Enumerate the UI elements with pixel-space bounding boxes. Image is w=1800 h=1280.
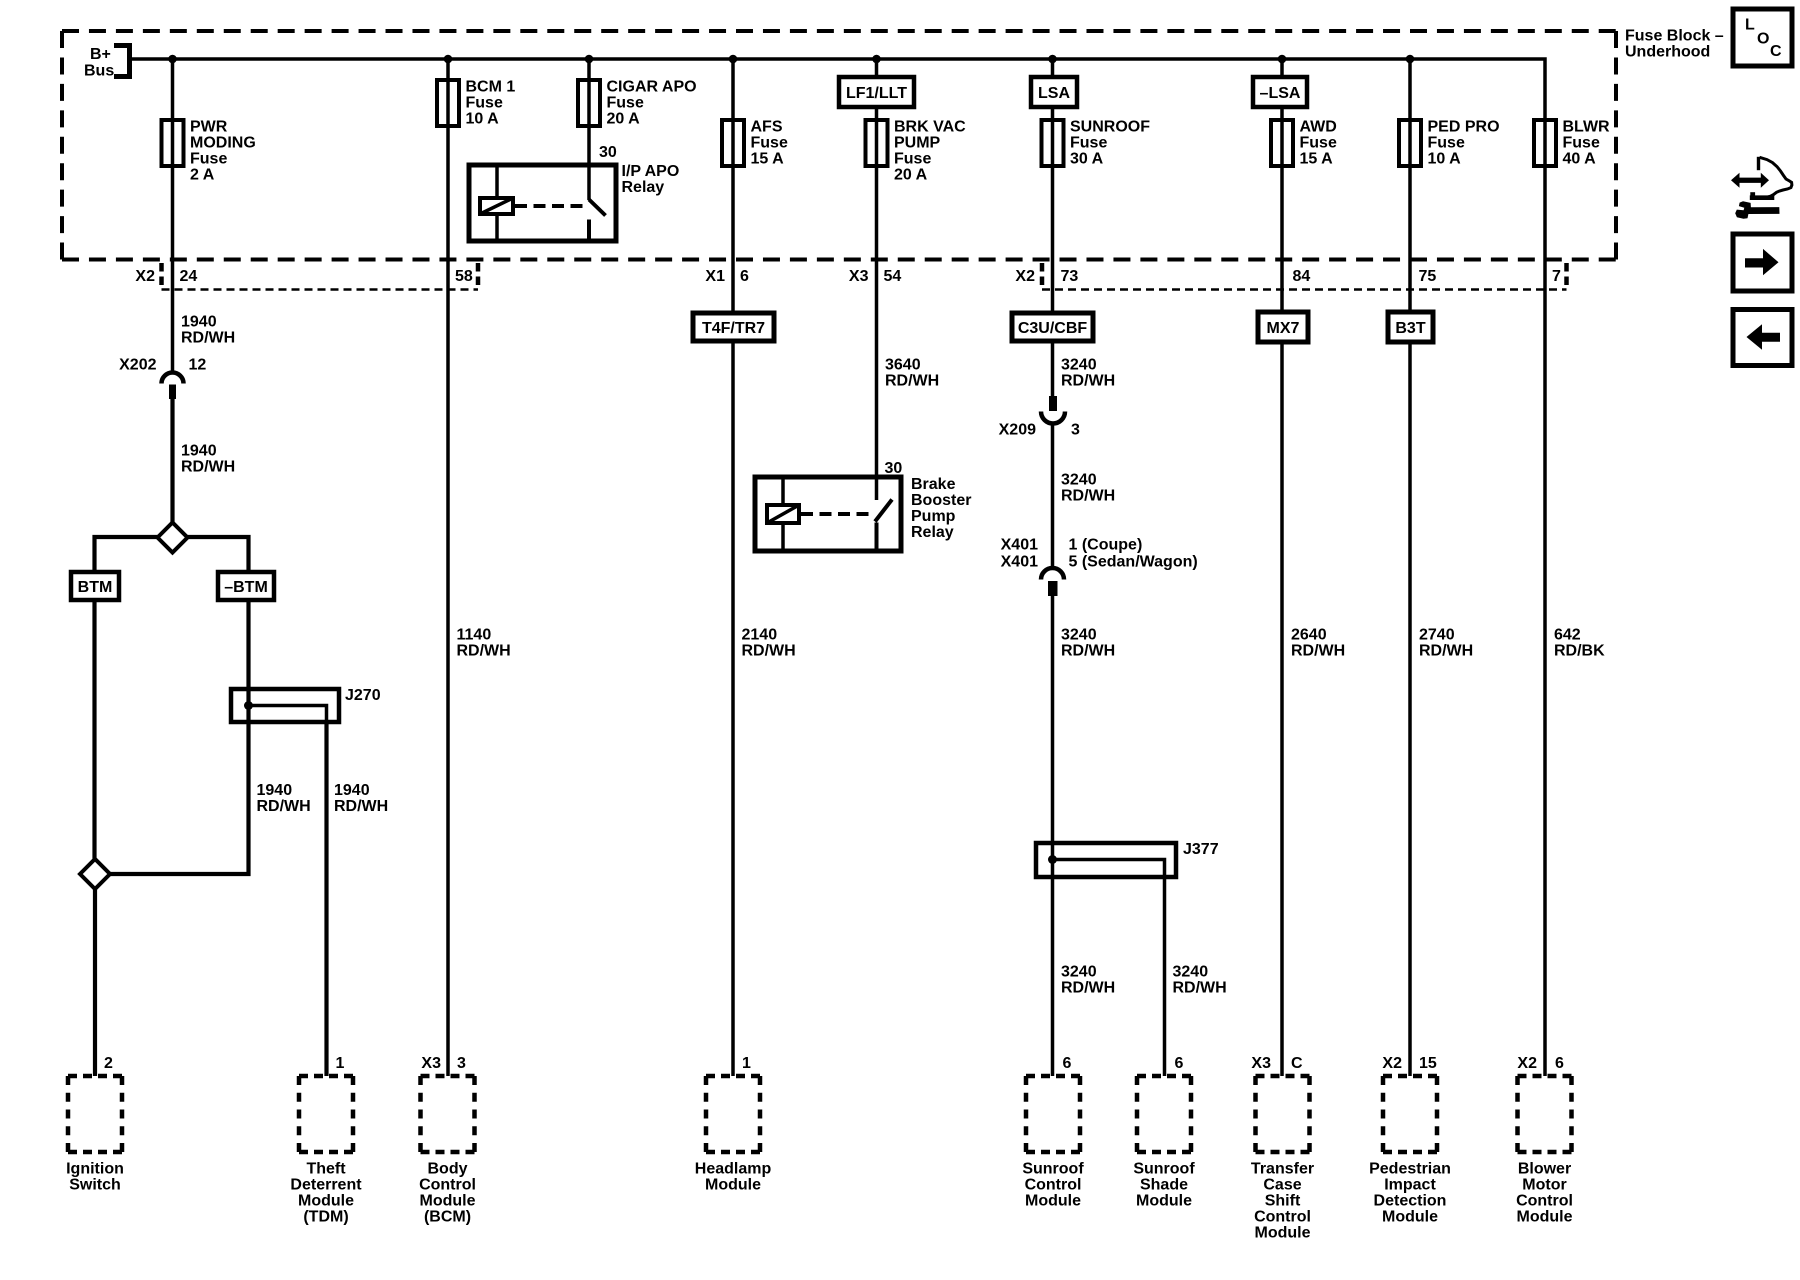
pin 1 TDM [336,1055,345,1072]
svg-text:X3: X3 [421,1055,441,1072]
svg-text:B+: B+ [90,46,111,63]
svg-text:58: 58 [455,268,473,285]
label box -BTM [218,572,274,600]
wire: SUNROOF fuse to X209 (3240 RD/WH) [1051,59,1055,396]
svg-text:75: 75 [1419,268,1437,285]
node: bus junction 3 [585,55,594,64]
svg-text:Fuse: Fuse [1070,135,1107,152]
svg-text:RD/WH: RD/WH [1061,980,1115,997]
svg-text:Control: Control [1025,1177,1082,1194]
svg-text:5 (Sedan/Wagon): 5 (Sedan/Wagon) [1069,554,1198,571]
node: bus junction 7 [1278,55,1287,64]
svg-text:3240: 3240 [1173,964,1209,981]
svg-text:3240: 3240 [1061,357,1097,374]
wire: splice to ignition switch [93,889,97,1076]
svg-text:10 A: 10 A [1428,151,1462,168]
svg-text:X401: X401 [1001,537,1038,554]
fuse BLWR 40A [1534,119,1610,168]
svg-text:J377: J377 [1183,841,1219,858]
splice diamond (to ignition switch) [80,859,110,889]
svg-text:642: 642 [1554,627,1581,644]
svg-text:BRK VAC: BRK VAC [894,119,966,136]
svg-text:RD/WH: RD/WH [1061,488,1115,505]
svg-text:(BCM): (BCM) [424,1209,471,1226]
svg-text:Fuse Block –: Fuse Block – [1625,28,1724,45]
wire label 3240 RD/WH (above X209) [1061,357,1115,390]
svg-text:AFS: AFS [751,119,783,136]
svg-text:Fuse: Fuse [751,135,788,152]
wire label 3640 RD/WH [885,357,939,390]
svg-text:Detection: Detection [1374,1193,1447,1210]
svg-text:LF1/LLT: LF1/LLT [846,85,907,102]
pin 6 sunroof control [1063,1055,1072,1072]
relay Brake Booster Pump (pin 30) [755,460,971,551]
svg-text:3640: 3640 [885,357,921,374]
svg-text:1: 1 [742,1055,751,1072]
module Sunroof Shade Module [1133,1076,1195,1210]
wire: BLWR fuse to blower module (642 RD/BK) [1543,120,1547,1076]
fuse PED PRO 10A [1399,119,1500,168]
svg-text:84: 84 [1293,268,1311,285]
icon: forward arrow box [1733,234,1792,291]
svg-text:Brake: Brake [911,476,956,493]
svg-text:C: C [1291,1055,1303,1072]
connector X3 pin 3 BCM [421,1055,466,1072]
connector X2 pin 24 [135,263,197,290]
wire: X209 to X401 (3240 RD/WH) [1051,424,1055,568]
svg-text:C: C [1770,43,1782,60]
svg-text:Module: Module [1517,1209,1573,1226]
connector X209 pin 3 [999,396,1080,438]
label box B3T [1388,312,1433,342]
svg-text:Fuse: Fuse [1300,135,1337,152]
pin 6 sunroof shade [1175,1055,1184,1072]
label box C3U/CBF [1012,313,1093,341]
svg-text:T4F/TR7: T4F/TR7 [702,320,765,337]
svg-text:RD/WH: RD/WH [181,459,235,476]
splice diamond (1940 RD/WH branch) [158,523,188,553]
svg-text:2740: 2740 [1419,627,1455,644]
svg-text:Motor: Motor [1522,1177,1566,1194]
svg-text:RD/WH: RD/WH [1061,643,1115,660]
wire label 3240 RD/WH (X209-X401) [1061,472,1115,505]
svg-text:RD/WH: RD/WH [181,330,235,347]
fuse BCM 1 10A [437,79,515,128]
svg-text:Control: Control [419,1177,476,1194]
svg-text:2: 2 [104,1055,113,1072]
svg-text:–BTM: –BTM [224,579,268,596]
wire: AWD fuse to transfer case module (2640 RD/WH) [1280,59,1284,1076]
svg-text:B3T: B3T [1395,320,1425,337]
svg-text:–LSA: –LSA [1260,85,1301,102]
svg-text:Transfer: Transfer [1251,1161,1314,1178]
svg-text:X202: X202 [119,357,156,374]
svg-text:PWR: PWR [190,119,228,136]
svg-text:40 A: 40 A [1563,151,1597,168]
svg-text:30: 30 [885,460,903,477]
label box LF1/LLT [839,77,914,107]
label box MX7 [1258,312,1308,342]
node: bus junction 2 [444,55,453,64]
module Pedestrian Impact Detection Module [1369,1076,1451,1226]
wire: B+ bus horizontal [130,59,1546,120]
pin 2 ignition switch [104,1055,113,1072]
svg-text:6: 6 [1063,1055,1072,1072]
label box BTM [71,572,119,600]
connector X3 pin 54 [849,268,901,285]
icon: back arrow box [1733,310,1792,366]
svg-text:30 A: 30 A [1070,151,1104,168]
svg-text:Theft: Theft [306,1161,346,1178]
wire label 1940 RD/WH (BTM branch) [257,782,311,815]
svg-text:Deterrent: Deterrent [290,1177,362,1194]
svg-text:Sunroof: Sunroof [1022,1161,1084,1178]
svg-text:1940: 1940 [181,443,217,460]
fuse PWR MODING 2A [162,119,256,184]
svg-text:6: 6 [740,268,749,285]
module Body Control Module [419,1076,476,1226]
label: Fuse Block - Underhood [1625,28,1724,61]
svg-text:RD/WH: RD/WH [1061,373,1115,390]
svg-text:6: 6 [1175,1055,1184,1072]
fuse SUNROOF 30A [1042,119,1151,168]
wire label 642 RD/BK [1554,627,1605,660]
module Sunroof Control Module [1022,1076,1084,1210]
svg-text:1 (Coupe): 1 (Coupe) [1069,537,1143,554]
svg-text:20 A: 20 A [607,111,641,128]
svg-text:1940: 1940 [257,782,293,799]
wire: CIGAR APO fuse to relay pin 30 [587,59,591,200]
node: bus junction 8 [1406,55,1415,64]
svg-text:Module: Module [1136,1193,1192,1210]
svg-text:Body: Body [428,1161,468,1178]
wire label 2740 RD/WH [1419,627,1473,660]
svg-text:X1: X1 [705,268,725,285]
connector X401 pin 1/5 [1001,537,1198,596]
wire label 1940 RD/WH (upper) [181,314,235,347]
svg-text:BLWR: BLWR [1563,119,1611,136]
svg-text:Module: Module [705,1177,761,1194]
svg-text:Impact: Impact [1384,1177,1436,1194]
node: bus junction 6 [1048,55,1057,64]
svg-text:6: 6 [1555,1055,1564,1072]
connector X2 strip 24-58 dashed [162,263,479,290]
svg-text:RD/WH: RD/WH [1291,643,1345,660]
svg-text:15 A: 15 A [1300,151,1334,168]
connector X2 pin 73 [1015,263,1078,290]
svg-text:X401: X401 [1001,554,1038,571]
svg-text:2140: 2140 [742,627,778,644]
pin 1 headlamp module [742,1055,751,1072]
svg-text:SUNROOF: SUNROOF [1070,119,1150,136]
wire: AFS fuse to headlamp module (2140 RD/WH) [731,59,735,1076]
svg-text:LSA: LSA [1038,85,1070,102]
svg-text:3: 3 [457,1055,466,1072]
svg-text:Underhood: Underhood [1625,44,1710,61]
fuse AWD 15A [1271,119,1337,168]
svg-text:3240: 3240 [1061,627,1097,644]
svg-text:Ignition: Ignition [66,1161,124,1178]
wire: J377 to sunroof shade module (3240 RD/WH) [1163,877,1167,1076]
label box T4F/TR7 [693,313,774,341]
splice J270 [231,687,381,722]
connector pin 84 [1293,268,1311,285]
wire label 3240 RD/WH (sunroof control) [1061,964,1115,997]
svg-text:AWD: AWD [1300,119,1337,136]
svg-text:1: 1 [336,1055,345,1072]
svg-text:RD/WH: RD/WH [457,643,511,660]
svg-text:Module: Module [420,1193,476,1210]
wire: J270 to theft deterrent module (1940 RD/WH) [324,722,328,1076]
svg-text:1940: 1940 [181,314,217,331]
module Ignition Switch [66,1076,124,1194]
svg-text:Pump: Pump [911,508,956,525]
svg-text:X3: X3 [849,268,869,285]
wire label 1940 RD/WH (TDM branch) [334,782,388,815]
wire label 1140 RD/WH [457,627,511,660]
svg-text:L: L [1745,17,1755,34]
connector X1 pin 6 [705,268,749,285]
svg-text:1940: 1940 [334,782,370,799]
fuse AFS 15A [722,119,788,168]
connector X2 pin 15 pedestrian [1382,1055,1436,1072]
svg-text:Bus: Bus [84,63,114,80]
svg-text:Shift: Shift [1265,1193,1301,1210]
relay I/P APO (pin 30) [469,144,679,241]
svg-text:Switch: Switch [69,1177,121,1194]
svg-text:Booster: Booster [911,492,971,509]
svg-text:Fuse: Fuse [190,151,227,168]
svg-text:Sunroof: Sunroof [1133,1161,1195,1178]
svg-text:54: 54 [884,268,902,285]
svg-text:X209: X209 [999,421,1036,438]
svg-text:Relay: Relay [622,179,665,196]
wire label 2140 RD/WH [742,627,796,660]
svg-text:Relay: Relay [911,524,954,541]
svg-text:24: 24 [180,268,198,285]
svg-text:3240: 3240 [1061,472,1097,489]
svg-text:X2: X2 [1382,1055,1402,1072]
svg-text:Fuse: Fuse [1563,135,1600,152]
wire: BTM down to lower splice [92,600,96,859]
svg-text:RD/WH: RD/WH [742,643,796,660]
wire: X401 to J377 and sunroof control module (3240 RD/WH) [1051,596,1055,1076]
svg-text:MX7: MX7 [1267,320,1300,337]
label box LSA [1031,77,1077,107]
connector X2 pin 6 blower [1517,1055,1564,1072]
svg-text:PUMP: PUMP [894,135,941,152]
wire: BCM 1 fuse to BCM (1140 RD/WH) [446,59,450,1076]
wire label 1940 RD/WH (below X202) [181,443,235,476]
svg-text:BTM: BTM [78,579,113,596]
svg-text:Fuse: Fuse [1428,135,1465,152]
svg-text:20 A: 20 A [894,167,928,184]
svg-text:(TDM): (TDM) [303,1209,348,1226]
splice J377 [1036,841,1219,877]
module Transfer Case Shift Control Module [1251,1076,1314,1242]
wire: -BTM down through J270 to lower splice [95,600,249,874]
svg-text:Shade: Shade [1140,1177,1188,1194]
wire: PED PRO fuse to pedestrian module (2740 RD/WH) [1408,59,1412,1076]
svg-text:RD/WH: RD/WH [885,373,939,390]
svg-text:RD/BK: RD/BK [1554,643,1605,660]
svg-text:X2: X2 [1517,1055,1537,1072]
svg-text:Module: Module [1255,1225,1311,1242]
connector pin 58 [455,268,473,285]
connector pin 75 [1419,268,1437,285]
svg-text:RD/WH: RD/WH [1419,643,1473,660]
node: bus junction 5 [872,55,881,64]
svg-text:J270: J270 [345,687,381,704]
svg-text:2 A: 2 A [190,167,215,184]
svg-text:2640: 2640 [1291,627,1327,644]
svg-text:X2: X2 [135,268,155,285]
svg-text:X3: X3 [1251,1055,1271,1072]
svg-text:3: 3 [1071,421,1080,438]
svg-text:Fuse: Fuse [894,151,931,168]
svg-text:Case: Case [1263,1177,1301,1194]
svg-text:Fuse: Fuse [607,95,644,112]
svg-text:3240: 3240 [1061,964,1097,981]
connector pin 7 [1552,268,1561,285]
wire label 3240 RD/WH (sunroof shade) [1173,964,1227,997]
svg-text:I/P APO: I/P APO [622,163,680,180]
connector X3 pin C transfer case [1251,1055,1303,1072]
module Blower Motor Control Module [1516,1076,1573,1226]
svg-text:Module: Module [1025,1193,1081,1210]
svg-text:O: O [1757,31,1769,48]
svg-text:Pedestrian: Pedestrian [1369,1161,1451,1178]
svg-text:Fuse: Fuse [466,95,503,112]
svg-text:C3U/CBF: C3U/CBF [1018,320,1088,337]
svg-text:RD/WH: RD/WH [257,798,311,815]
svg-text:12: 12 [189,357,207,374]
svg-text:RD/WH: RD/WH [334,798,388,815]
wire label 2640 RD/WH [1291,627,1345,660]
connector X2 strip 73-7 dashed [1042,263,1567,290]
svg-text:7: 7 [1552,268,1561,285]
svg-text:RD/WH: RD/WH [1173,980,1227,997]
wire: branch to BTM and -BTM [95,537,249,572]
svg-text:15 A: 15 A [751,151,785,168]
wire: X202 down to splice diamond [170,399,174,537]
module Theft Deterrent Module [290,1076,362,1226]
svg-text:Control: Control [1516,1193,1573,1210]
svg-text:BCM 1: BCM 1 [466,79,516,96]
icon: service arrows and wrench [1731,157,1792,219]
label box -LSA [1253,77,1307,107]
svg-text:Headlamp: Headlamp [695,1161,772,1178]
svg-text:Blower: Blower [1518,1161,1571,1178]
svg-text:PED PRO: PED PRO [1428,119,1500,136]
svg-text:30: 30 [599,144,617,161]
svg-text:15: 15 [1419,1055,1437,1072]
svg-text:Module: Module [298,1193,354,1210]
svg-text:1140: 1140 [457,627,492,644]
connector X202 pin 12 [119,357,206,400]
node: bus junction 4 [729,55,738,64]
B+ Bus terminal [84,46,130,80]
icon: LOC box [1733,9,1792,66]
svg-text:73: 73 [1061,268,1079,285]
wire: BRK VAC PUMP fuse to brake booster relay (3640 RD/WH) [875,59,879,500]
svg-text:MODING: MODING [190,135,256,152]
fuse CIGAR APO 20A [578,79,697,128]
svg-text:Module: Module [1382,1209,1438,1226]
svg-text:Control: Control [1254,1209,1311,1226]
svg-text:X2: X2 [1015,268,1035,285]
svg-text:10 A: 10 A [466,111,500,128]
wire: PWR MODING fuse feed (1940 RD/WH branch) [171,59,175,373]
fuse BRK VAC PUMP 20A [866,119,967,184]
node: bus junction 1 [168,55,177,64]
module Headlamp Module [695,1076,772,1194]
wire label 3240 RD/WH (below X401) [1061,627,1115,660]
svg-text:CIGAR APO: CIGAR APO [607,79,697,96]
fuse block underhood dashed box [62,31,1616,260]
